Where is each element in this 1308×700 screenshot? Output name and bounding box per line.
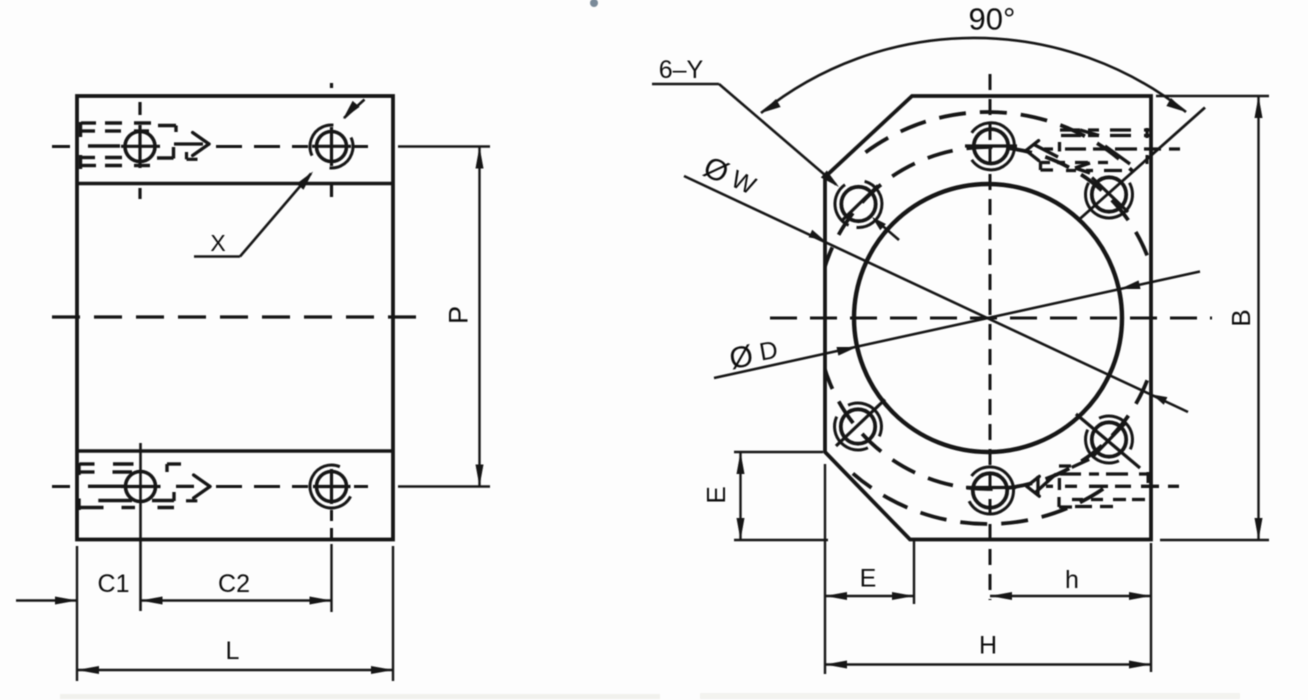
right view: hole top (6-Y) (974, 129, 1008, 163)
svg-text:P: P (444, 306, 474, 324)
dimension E (bottom) (824, 464, 826, 674)
right view: oil hole arrow bottom (1027, 486, 1040, 496)
left view: hole bottom right (crossed circle with counterbore arc) (317, 472, 347, 502)
dimension P (398, 145, 490, 147)
left view: bottom holes centerline (52, 485, 70, 488)
right view: hole upper-right (6-Y) (1092, 177, 1126, 211)
left view: hole X top right (crossed circle with counterbore arc) (317, 132, 347, 162)
left view: hidden lines counterbore top (81, 121, 96, 124)
scan artifact band bottom (60, 694, 660, 699)
dimension H (1150, 543, 1152, 672)
left view: oil hole arrow top (174, 142, 203, 145)
left view: middle centerline (52, 315, 420, 318)
scan artifact dot top (590, 0, 598, 7)
dimension h (990, 595, 1151, 597)
svg-text:L: L (226, 637, 240, 665)
left view: bottom flange line (77, 449, 393, 453)
right view: counterbore circle top arc (dashed) (866, 112, 1134, 172)
right view: housing outline (chamfered block) (825, 96, 1151, 540)
right view: hole lower-left (6-Y) (841, 409, 875, 443)
right view: horizontal centerline (770, 317, 1212, 320)
right view: hidden oil passage top (1060, 128, 1080, 131)
dimension E (vertical) (734, 451, 823, 453)
left view: top holes centerline (52, 145, 70, 148)
left view: hole top-left (crossed circle) (125, 132, 155, 162)
svg-text:D: D (757, 336, 780, 367)
right view: counterbore circle bottom arc (dashed) (853, 474, 1103, 525)
left view: hole bottom-left (crossed circle) (126, 472, 156, 502)
right view: vertical centerline (989, 74, 992, 600)
svg-text:B: B (1226, 309, 1256, 326)
svg-text:C1: C1 (98, 570, 130, 598)
right view: hidden oil passage bottom (1059, 464, 1071, 467)
svg-text:h: h (1065, 566, 1079, 594)
right view: oil hole arrow top (1026, 151, 1039, 161)
svg-text:Ø: Ø (727, 339, 756, 376)
left view: top flange line (77, 182, 393, 186)
svg-text:6–Y: 6–Y (659, 56, 704, 84)
svg-text:W: W (727, 165, 761, 201)
left view: extension line through bottom-left hole (139, 443, 142, 611)
right view: hole upper-left (6-Y) (841, 187, 875, 221)
svg-text:E: E (701, 486, 731, 503)
svg-text:C2: C2 (218, 570, 250, 598)
left view: oil hole arrow bottom (176, 485, 194, 488)
right view: hole lower-right (6-Y) (1092, 422, 1126, 456)
dimension C2 (141, 599, 332, 601)
dimension diameter D leader line (714, 272, 1200, 379)
left view: housing body outline (77, 96, 393, 540)
left view: bracket right of top hole (172, 147, 175, 159)
svg-text:90°: 90° (969, 2, 1016, 37)
svg-text:H: H (979, 632, 997, 660)
right view: hole bottom (6-Y) (973, 473, 1007, 507)
left view: counterbore center dash top (88, 144, 120, 147)
dimension B (1156, 95, 1269, 97)
dimension diameter W leader line (684, 176, 1188, 412)
dimension L (77, 669, 393, 671)
right view: bore circle D (854, 184, 1122, 452)
svg-text:X: X (210, 230, 225, 256)
left view: hidden lines counterbore bottom (80, 462, 95, 465)
svg-text:E: E (860, 565, 877, 593)
dimension C1 (76, 546, 78, 681)
